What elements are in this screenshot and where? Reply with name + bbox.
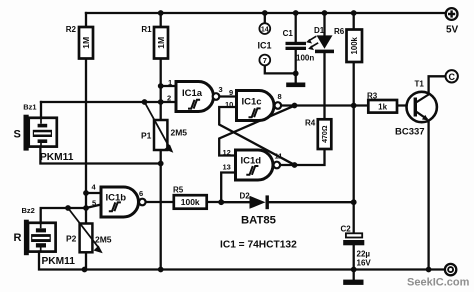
svg-text:IC1: IC1 bbox=[258, 41, 272, 51]
svg-text:R3: R3 bbox=[367, 92, 378, 101]
svg-text:SeekIC.com: SeekIC.com bbox=[407, 277, 470, 289]
svg-text:BAT85: BAT85 bbox=[241, 215, 276, 227]
svg-text:IC1 = 74HCT132: IC1 = 74HCT132 bbox=[220, 240, 297, 251]
svg-text:C: C bbox=[448, 72, 455, 82]
svg-text:9: 9 bbox=[229, 88, 233, 97]
svg-text:1M: 1M bbox=[156, 37, 166, 49]
svg-text:T1: T1 bbox=[415, 80, 425, 89]
svg-text:470Ω: 470Ω bbox=[322, 125, 329, 143]
svg-text:6: 6 bbox=[139, 189, 143, 198]
svg-text:C2: C2 bbox=[341, 225, 352, 234]
svg-text:8: 8 bbox=[278, 92, 282, 101]
svg-text:2M5: 2M5 bbox=[95, 235, 112, 245]
svg-text:S: S bbox=[14, 129, 21, 141]
svg-text:BC337: BC337 bbox=[395, 127, 425, 138]
svg-text:12: 12 bbox=[223, 148, 231, 157]
svg-text:5: 5 bbox=[92, 199, 96, 208]
svg-text:1M: 1M bbox=[81, 37, 91, 49]
svg-text:IC1b: IC1b bbox=[106, 193, 127, 204]
svg-text:2M5: 2M5 bbox=[171, 128, 188, 138]
svg-text:11: 11 bbox=[275, 152, 283, 161]
svg-text:R1: R1 bbox=[141, 25, 152, 34]
svg-text:IC1d: IC1d bbox=[241, 156, 262, 167]
svg-text:22µ: 22µ bbox=[357, 250, 371, 259]
svg-text:5V: 5V bbox=[446, 25, 459, 36]
svg-text:100k: 100k bbox=[181, 197, 200, 207]
svg-text:7: 7 bbox=[263, 56, 267, 65]
svg-text:2: 2 bbox=[167, 94, 171, 103]
svg-text:13: 13 bbox=[223, 163, 231, 172]
svg-text:100n: 100n bbox=[296, 54, 314, 63]
svg-text:R4: R4 bbox=[305, 119, 316, 128]
svg-text:16V: 16V bbox=[357, 259, 372, 268]
svg-text:1: 1 bbox=[168, 78, 172, 87]
svg-text:3: 3 bbox=[219, 85, 223, 94]
svg-text:14: 14 bbox=[261, 27, 269, 34]
svg-text:PKM11: PKM11 bbox=[42, 256, 76, 267]
svg-text:R2: R2 bbox=[66, 25, 77, 34]
svg-text:D2: D2 bbox=[240, 192, 251, 201]
svg-text:R: R bbox=[14, 232, 22, 244]
svg-text:PKM11: PKM11 bbox=[40, 152, 74, 163]
svg-text:Bz1: Bz1 bbox=[23, 103, 36, 112]
svg-text:IC1c: IC1c bbox=[242, 97, 262, 108]
svg-text:P2: P2 bbox=[66, 234, 77, 244]
svg-text:D1: D1 bbox=[314, 26, 325, 35]
svg-text:R6: R6 bbox=[334, 27, 345, 36]
svg-text:IC1a: IC1a bbox=[182, 88, 203, 99]
svg-text:Bz2: Bz2 bbox=[22, 206, 35, 215]
svg-text:R5: R5 bbox=[173, 186, 184, 195]
svg-text:P1: P1 bbox=[141, 131, 152, 141]
svg-text:10: 10 bbox=[225, 100, 233, 109]
svg-text:C1: C1 bbox=[283, 29, 294, 38]
svg-text:100k: 100k bbox=[350, 36, 359, 54]
svg-text:1k: 1k bbox=[378, 103, 387, 112]
